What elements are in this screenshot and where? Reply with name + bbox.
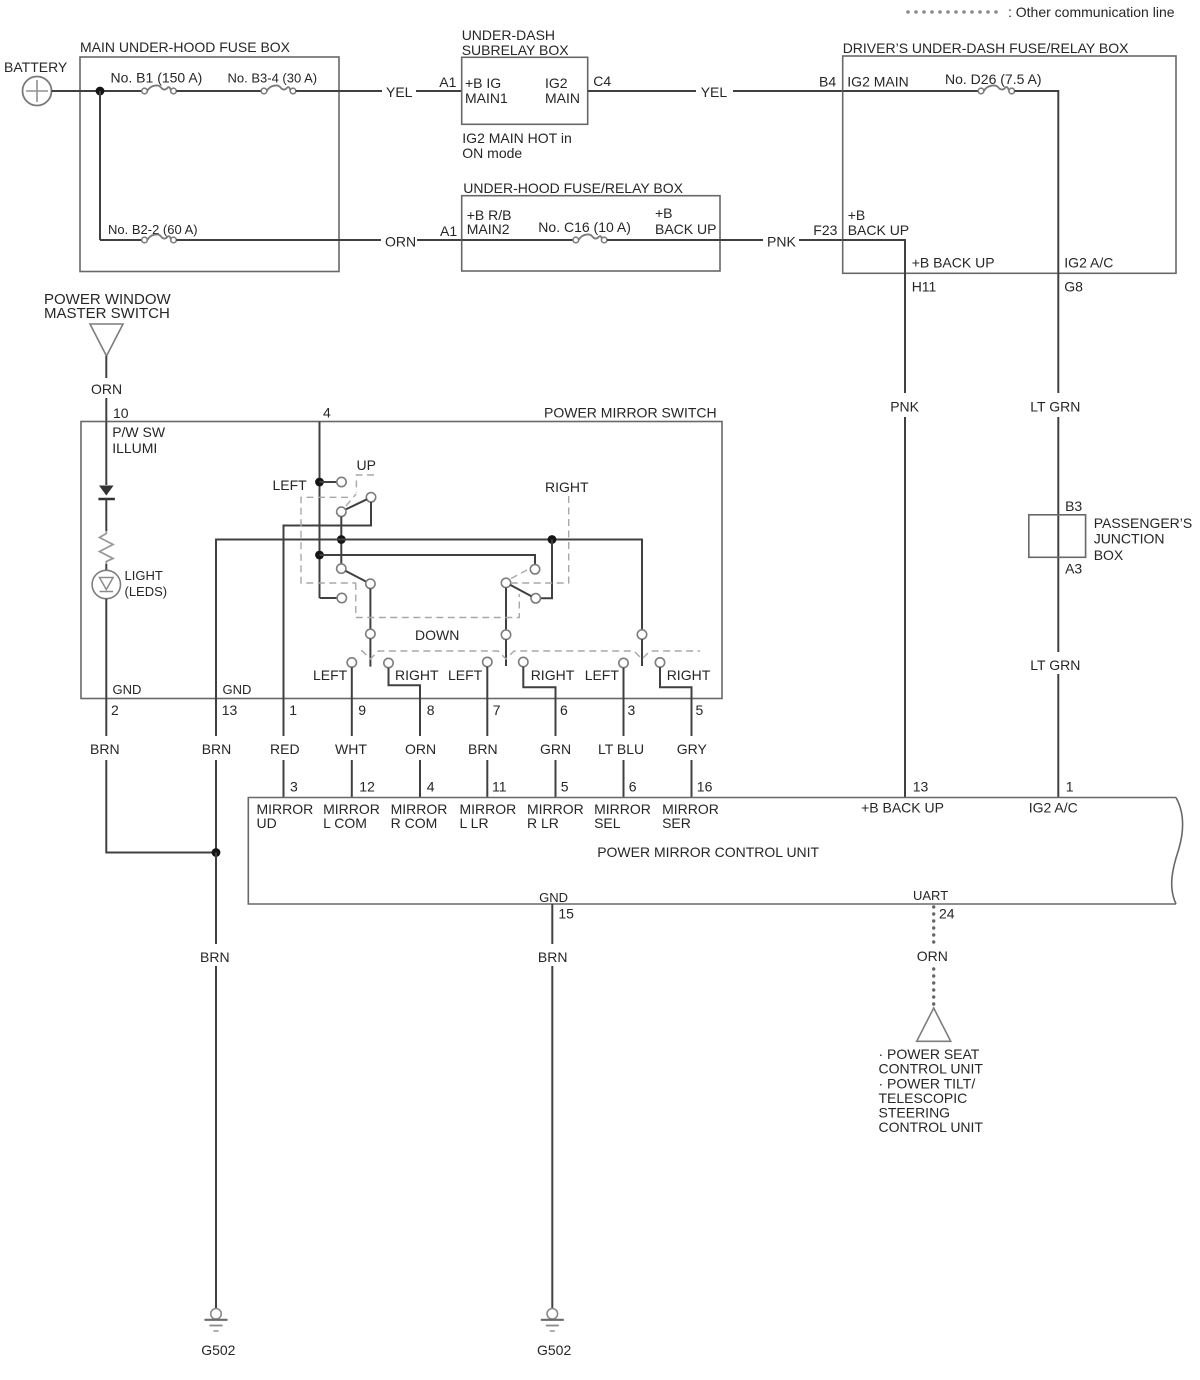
svg-text:G502: G502 [201, 1342, 235, 1358]
svg-text:C4: C4 [593, 73, 611, 89]
svg-text:G8: G8 [1064, 279, 1083, 295]
svg-text:DRIVER’S UNDER-DASH FUSE/RELAY: DRIVER’S UNDER-DASH FUSE/RELAY BOX [843, 40, 1129, 56]
contact C5 [337, 564, 346, 573]
wire pin 4 feed vertical [319, 422, 321, 599]
wire pin1 RED [283, 699, 285, 737]
wire YEL to subrelay box [416, 90, 462, 92]
node +B bus junction [315, 551, 324, 560]
contact C9 [531, 594, 540, 603]
fuse No. B3-4 (30 A) [228, 71, 318, 94]
svg-text:2: 2 [111, 702, 119, 718]
svg-text:13: 13 [222, 702, 238, 718]
svg-text:12: 12 [359, 779, 375, 795]
svg-text:UNDER-DASH: UNDER-DASH [462, 27, 555, 43]
contact C8 [530, 565, 539, 574]
wire C16 to pin 6 [523, 667, 555, 699]
wire battery to fuse B1 [52, 90, 142, 92]
svg-text:MAIN1: MAIN1 [465, 90, 508, 106]
wire B4 to fuse D26 [843, 90, 979, 92]
wire C17 to pin 9 [351, 667, 353, 698]
svg-text:BRN: BRN [202, 741, 232, 757]
svg-text:IG2 A/C: IG2 A/C [1029, 800, 1078, 816]
svg-text:POWER MIRROR SWITCH: POWER MIRROR SWITCH [544, 405, 717, 421]
dashed linkage UP [356, 475, 374, 493]
svg-text:6: 6 [560, 702, 568, 718]
wire C14 to pin 5 [660, 667, 692, 698]
wire to PNK gap [720, 239, 763, 241]
wire pin7 BRN [486, 699, 488, 737]
svg-text:RIGHT: RIGHT [531, 667, 575, 683]
svg-text:POWER MIRROR CONTROL UNIT: POWER MIRROR CONTROL UNIT [597, 844, 819, 860]
svg-text:7: 7 [493, 702, 501, 718]
svg-text:9: 9 [358, 702, 366, 718]
svg-text:GRY: GRY [677, 741, 708, 757]
svg-text:A1: A1 [439, 74, 456, 90]
wire pin13 BRN [215, 699, 217, 737]
contact C18 pin8 [384, 658, 393, 667]
wire pin5 GRY [691, 699, 693, 737]
wire pin4 corner to C4 [320, 597, 338, 599]
wire pin3 LT BLU [623, 699, 625, 737]
dashed arm alt left [346, 494, 356, 506]
svg-text:SEL: SEL [594, 815, 621, 831]
svg-text:GND: GND [113, 682, 142, 697]
wire GND bus y540 [216, 540, 642, 699]
wire fuse D26 to corner [1015, 91, 1059, 273]
ground G502 left [201, 1309, 235, 1359]
wire UART dotted [932, 905, 935, 943]
svg-text:UD: UD [257, 815, 277, 831]
svg-text:GND: GND [539, 890, 568, 905]
svg-text:LT GRN: LT GRN [1030, 398, 1080, 414]
svg-text:LEFT: LEFT [313, 667, 348, 683]
svg-text:5: 5 [561, 779, 569, 795]
wire +B BACK UP vertical PNK [904, 273, 906, 393]
contact C13 pin3 [619, 658, 628, 667]
node LEFT feed junction [315, 478, 324, 487]
svg-text:BRN: BRN [200, 949, 230, 965]
svg-text:UART: UART [913, 888, 948, 903]
svg-text:13: 13 [913, 779, 929, 795]
svg-text:BACK UP: BACK UP [848, 222, 909, 238]
svg-text:3: 3 [628, 702, 636, 718]
pole tail middle [505, 639, 507, 666]
battery [4, 59, 68, 106]
contact C6 [366, 579, 375, 588]
svg-text:24: 24 [939, 906, 955, 922]
svg-text:H11: H11 [912, 279, 937, 295]
fuse No. B2-2 (60 A) [100, 222, 198, 243]
svg-text:1: 1 [1066, 779, 1074, 795]
dashed linkage RIGHT [511, 496, 569, 583]
svg-text:3: 3 [290, 779, 298, 795]
contact C11 pole [501, 630, 510, 639]
svg-text:YEL: YEL [386, 84, 413, 100]
svg-text:15: 15 [558, 906, 574, 922]
svg-text:G502: G502 [537, 1342, 571, 1358]
svg-text:SUBRELAY BOX: SUBRELAY BOX [462, 42, 570, 58]
svg-text:6: 6 [629, 779, 637, 795]
wire C6 to C7 [369, 589, 371, 630]
wire pin9 WHT [351, 699, 353, 737]
svg-text:BACK UP: BACK UP [655, 221, 716, 237]
svg-text:ORN: ORN [385, 234, 416, 250]
destination list [879, 1046, 984, 1135]
svg-text:DOWN: DOWN [415, 627, 459, 643]
wire C2 to pin 1 [284, 502, 372, 699]
svg-text:LIGHT: LIGHT [125, 568, 163, 583]
svg-text:F23: F23 [813, 222, 837, 238]
switch arm upper left [345, 499, 367, 510]
pole tail left [369, 639, 371, 667]
wire GND 15 BRN [551, 904, 553, 944]
svg-text:No. B1 (150 A): No. B1 (150 A) [111, 70, 203, 86]
svg-text:LT GRN: LT GRN [1030, 657, 1080, 673]
main under-hood fuse box [80, 39, 339, 272]
wire pin2 BRN [105, 699, 107, 737]
wire P/W SW illumination feed [105, 422, 107, 486]
svg-text:IG2 MAIN HOT in: IG2 MAIN HOT in [462, 130, 571, 146]
svg-text:SER: SER [662, 815, 691, 831]
svg-text:4: 4 [427, 779, 435, 795]
wire resistor to LED [105, 564, 107, 570]
wire junction to contact [320, 481, 337, 483]
dashed DOWN bar [361, 651, 700, 659]
contact C12 pole right [637, 630, 646, 639]
svg-text:IG2 A/C: IG2 A/C [1064, 254, 1113, 270]
wire C3 to C5 [340, 517, 342, 564]
svg-text:A1: A1 [440, 223, 457, 239]
svg-text:IG2 MAIN: IG2 MAIN [847, 74, 908, 90]
under-dash subrelay box [462, 27, 588, 161]
svg-text:BRN: BRN [538, 949, 568, 965]
svg-text:MASTER SWITCH: MASTER SWITCH [44, 305, 170, 322]
svg-text:LEFT: LEFT [585, 667, 620, 683]
connector triangle UART [917, 1008, 951, 1041]
wire YEL to driver's box [733, 90, 843, 92]
svg-text:L COM: L COM [323, 815, 367, 831]
svg-text:ILLUMI: ILLUMI [112, 440, 157, 456]
fuse No. D26 (7.5 A) [978, 85, 1014, 93]
node GND bus middle junction [548, 535, 557, 544]
svg-text:+B: +B [655, 205, 673, 221]
LED lamp LIGHT (LEDS) [92, 568, 167, 599]
contact C1 up-left [337, 477, 346, 486]
svg-text:R LR: R LR [527, 815, 559, 831]
svg-text:+B IG: +B IG [465, 75, 501, 91]
svg-text:8: 8 [427, 702, 435, 718]
svg-text:+B BACK UP: +B BACK UP [861, 800, 944, 816]
svg-text:10: 10 [113, 405, 129, 421]
svg-text:GRN: GRN [540, 741, 571, 757]
svg-text:B3: B3 [1065, 498, 1082, 514]
fuse No. B1 (150 A) [111, 70, 203, 94]
svg-text:B4: B4 [819, 74, 836, 90]
wire C13 to pin 3 [623, 668, 625, 699]
node battery junction [96, 87, 105, 96]
wire ORN to under-hood fuse/relay box [417, 239, 462, 241]
svg-text:16: 16 [697, 779, 713, 795]
svg-text:PNK: PNK [890, 398, 919, 414]
svg-text:BRN: BRN [468, 741, 498, 757]
svg-text:ORN: ORN [917, 948, 948, 964]
svg-text:MAIN UNDER-HOOD FUSE BOX: MAIN UNDER-HOOD FUSE BOX [80, 39, 291, 55]
svg-text:ORN: ORN [91, 381, 122, 397]
wire IG2 A/C vertical LT GRN [1057, 273, 1059, 393]
wire fuse B2-2 to ORN gap [176, 239, 381, 241]
svg-text:WHT: WHT [335, 741, 367, 757]
svg-text:CONTROL UNIT: CONTROL UNIT [879, 1119, 984, 1135]
wire LED to GND pin 2 [105, 599, 107, 699]
svg-text:R COM: R COM [391, 815, 438, 831]
svg-text:JUNCTION: JUNCTION [1094, 531, 1165, 547]
dashed linkage left-down [356, 583, 520, 618]
svg-text:11: 11 [492, 779, 507, 795]
svg-text:IG2: IG2 [545, 75, 568, 91]
svg-text:4: 4 [323, 405, 331, 421]
legend: other communication line [906, 4, 1175, 20]
svg-text:LEFT: LEFT [273, 477, 308, 493]
driver's under-dash fuse/relay box [843, 40, 1176, 295]
power window master switch [44, 291, 171, 356]
ground G502 middle [537, 1309, 571, 1359]
svg-text:BOX: BOX [1094, 547, 1124, 563]
svg-text:1: 1 [289, 702, 297, 718]
wire C4 to YEL gap [588, 90, 696, 92]
resistor R illumination [100, 531, 114, 564]
svg-text:ORN: ORN [405, 741, 436, 757]
switch arm lower left [346, 571, 367, 582]
wire +B bus y555 [320, 555, 536, 565]
contact C15 pin7 [483, 657, 492, 666]
svg-text:MAIN2: MAIN2 [467, 221, 510, 237]
svg-text:CONTROL UNIT: CONTROL UNIT [879, 1061, 984, 1077]
diode D illumination [98, 486, 115, 500]
svg-text:+B: +B [848, 207, 866, 223]
switch arm middle [510, 585, 531, 596]
contact C3 [337, 507, 346, 516]
svg-text:YEL: YEL [701, 84, 728, 100]
svg-text:PNK: PNK [767, 234, 796, 250]
wire fuse C16 to box edge [607, 239, 720, 241]
node ground junction [212, 848, 221, 857]
contact C17 pin9 [347, 658, 356, 667]
pole tail right [641, 639, 643, 666]
wire ORN from master switch [105, 356, 107, 378]
wire C10 to C11 [505, 588, 507, 630]
svg-text:UP: UP [357, 457, 376, 473]
svg-text:No. C16 (10 A): No. C16 (10 A) [538, 219, 631, 235]
svg-text:BRN: BRN [90, 741, 120, 757]
under-hood fuse/relay box [462, 180, 720, 271]
wire C18 to pin 8 [389, 668, 421, 699]
wire GND middle drop to C9 [540, 540, 552, 599]
power mirror switch box [81, 405, 722, 699]
svg-text:RED: RED [270, 741, 300, 757]
passenger's junction box [1029, 515, 1192, 563]
svg-text:RIGHT: RIGHT [395, 667, 439, 683]
wire diode to resistor [105, 499, 107, 531]
contact C2 arm end [366, 493, 375, 502]
dashed linkage LEFT [301, 497, 356, 583]
svg-text:GND: GND [223, 682, 252, 697]
svg-text:No. B3-4 (30 A): No. B3-4 (30 A) [228, 71, 318, 86]
svg-text:LEFT: LEFT [448, 667, 483, 683]
contact C10 pivot middle [501, 578, 510, 587]
wire C15 to pin 7 [486, 667, 488, 699]
svg-text:L LR: L LR [460, 815, 489, 831]
svg-text:PASSENGER’S: PASSENGER’S [1094, 515, 1193, 531]
wire BRN to G502 left [215, 853, 217, 945]
svg-text:RIGHT: RIGHT [545, 479, 589, 495]
fuse No. C16 (10 A) [573, 234, 607, 242]
wire fuse B3-4 to YEL gap [296, 90, 382, 92]
svg-text:LT BLU: LT BLU [598, 741, 644, 757]
contact C7 pole [366, 629, 375, 638]
svg-text:5: 5 [696, 702, 704, 718]
svg-text:UNDER-HOOD FUSE/RELAY BOX: UNDER-HOOD FUSE/RELAY BOX [463, 180, 683, 196]
dashed arm alt middle [511, 570, 527, 579]
node GND line junction left [337, 535, 346, 544]
svg-text:P/W SW: P/W SW [112, 424, 166, 440]
svg-text:: Other communication line: : Other communication line [1008, 4, 1175, 20]
power mirror control unit [248, 798, 1182, 906]
contact C16 pin6 [519, 657, 528, 666]
wire F23 to corner down [843, 240, 905, 273]
contact C14 pin5 [655, 658, 664, 667]
contact C4 [337, 593, 346, 602]
wire PNK to driver's box [799, 239, 843, 241]
svg-text:ON mode: ON mode [462, 145, 522, 161]
svg-text:BATTERY: BATTERY [4, 59, 68, 75]
wire A1 into fuse C16 [462, 239, 573, 241]
svg-text:MAIN: MAIN [545, 90, 580, 106]
wire pin6 GRN [555, 699, 557, 737]
svg-text:RIGHT: RIGHT [667, 667, 711, 683]
svg-text:+B BACK UP: +B BACK UP [912, 254, 995, 270]
svg-text:(LEDS): (LEDS) [125, 584, 168, 599]
svg-text:A3: A3 [1065, 561, 1082, 577]
wire fuse B1 to fuse B3-4 [176, 90, 261, 92]
wire pin8 ORN [419, 699, 421, 737]
wire battery junction down [99, 91, 101, 240]
